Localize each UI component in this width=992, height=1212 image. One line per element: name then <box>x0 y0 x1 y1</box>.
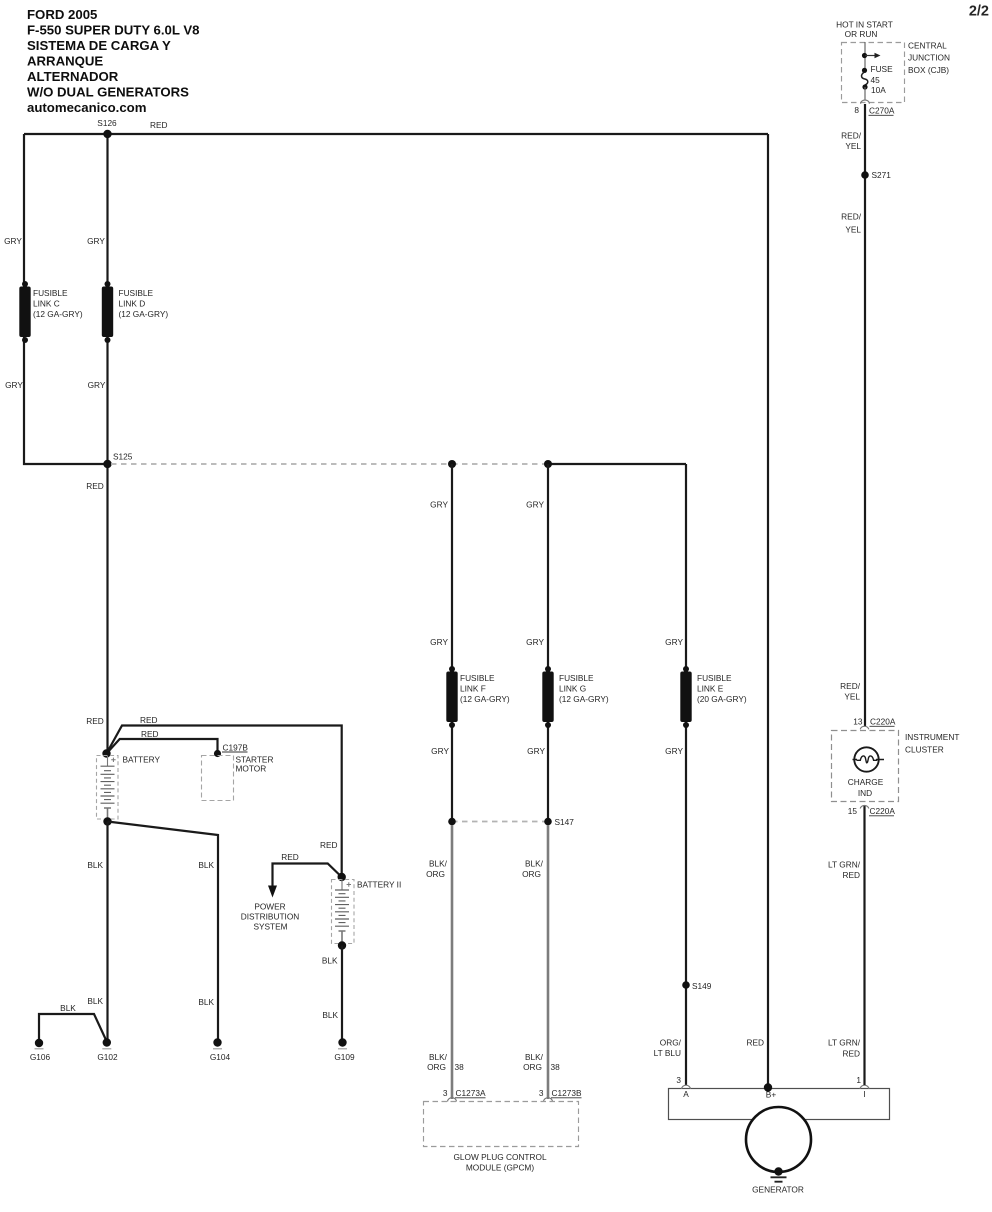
svg-text:BLK: BLK <box>322 1010 338 1020</box>
svg-text:S126: S126 <box>97 118 117 128</box>
ground G106 <box>30 1039 51 1062</box>
svg-text:38: 38 <box>455 1062 465 1072</box>
svg-text:BLK: BLK <box>87 860 103 870</box>
svg-text:W/O DUAL GENERATORS: W/O DUAL GENERATORS <box>27 85 189 100</box>
fusible link E <box>680 666 747 728</box>
svg-text:YEL: YEL <box>844 692 860 702</box>
svg-text:B+: B+ <box>766 1090 777 1100</box>
svg-text:G102: G102 <box>97 1052 118 1062</box>
svg-text:FUSIBLE: FUSIBLE <box>460 673 495 683</box>
svg-text:GRY: GRY <box>88 380 106 390</box>
svg-text:SYSTEM: SYSTEM <box>253 922 287 932</box>
svg-text:C1273B: C1273B <box>552 1088 582 1098</box>
svg-text:LINK E: LINK E <box>697 684 724 694</box>
svg-text:BOX (CJB): BOX (CJB) <box>908 65 949 75</box>
svg-text:BLK/: BLK/ <box>429 859 448 869</box>
wire BLK battery- to G102 <box>106 822 108 1043</box>
generator terminal I pin 1 <box>856 1075 869 1099</box>
node S126 <box>97 118 117 138</box>
ground G102 <box>97 1038 118 1062</box>
svg-text:45: 45 <box>871 75 881 85</box>
svg-text:YEL: YEL <box>845 141 861 151</box>
svg-text:S149: S149 <box>692 981 712 991</box>
wire GRY link E branch <box>685 464 687 1085</box>
wire BLK battery II to G109 <box>341 946 343 1043</box>
svg-text:RED: RED <box>86 481 104 491</box>
wire solid bus G junction to link E elbow <box>548 463 686 465</box>
svg-text:38: 38 <box>551 1062 561 1072</box>
svg-text:GRY: GRY <box>430 637 448 647</box>
wire GRY link F branch <box>451 464 453 821</box>
svg-text:F-550 SUPER DUTY 6.0L V8: F-550 SUPER DUTY 6.0L V8 <box>27 23 199 38</box>
svg-text:RED: RED <box>842 870 860 880</box>
svg-text:ORG: ORG <box>426 869 445 879</box>
wire RED right drop to generator B+ <box>767 134 769 1087</box>
svg-text:(12 GA-GRY): (12 GA-GRY) <box>559 694 609 704</box>
generator GENERATOR circle <box>746 1107 811 1195</box>
svg-text:DISTRIBUTION: DISTRIBUTION <box>241 912 300 922</box>
svg-text:JUNCTION: JUNCTION <box>908 53 950 63</box>
svg-text:LINK D: LINK D <box>119 299 146 309</box>
svg-text:INSTRUMENT: INSTRUMENT <box>905 732 959 742</box>
label RED/YEL upper <box>841 131 862 152</box>
ground G104 <box>210 1038 231 1062</box>
label RED/YEL lower <box>840 681 861 702</box>
svg-text:GRY: GRY <box>665 637 683 647</box>
svg-text:RED/: RED/ <box>841 212 862 222</box>
svg-text:IND: IND <box>858 788 872 798</box>
node S271 <box>861 170 891 180</box>
svg-text:S125: S125 <box>113 452 133 462</box>
node S125 <box>103 452 132 469</box>
svg-text:ORG: ORG <box>522 869 541 879</box>
svg-text:LT GRN/: LT GRN/ <box>828 860 861 870</box>
svg-text:G106: G106 <box>30 1052 51 1062</box>
svg-text:C1273A: C1273A <box>456 1088 486 1098</box>
fusible link D <box>102 281 169 343</box>
battery II BATTERY II symbol <box>332 879 402 944</box>
svg-text:SISTEMA DE CARGA Y: SISTEMA DE CARGA Y <box>27 38 171 53</box>
wire BLK battery- to G104 <box>108 822 219 1043</box>
svg-text:RED/: RED/ <box>840 681 861 691</box>
svg-text:RED: RED <box>281 852 299 862</box>
svg-text:C220A: C220A <box>870 806 896 816</box>
central junction box CJB dashed box <box>842 41 950 103</box>
generator box <box>669 1089 890 1120</box>
svg-text:C197B: C197B <box>223 743 249 753</box>
svg-text:G109: G109 <box>334 1052 355 1062</box>
svg-text:(12 GA-GRY): (12 GA-GRY) <box>119 309 169 319</box>
svg-text:(20 GA-GRY): (20 GA-GRY) <box>697 694 747 704</box>
svg-text:(12 GA-GRY): (12 GA-GRY) <box>33 309 83 319</box>
ground G109 <box>334 1038 355 1062</box>
node S149 <box>682 981 712 991</box>
svg-text:ARRANQUE: ARRANQUE <box>27 54 103 69</box>
svg-text:RED: RED <box>746 1038 764 1048</box>
svg-text:S147: S147 <box>555 817 575 827</box>
svg-text:FORD 2005: FORD 2005 <box>27 7 97 22</box>
CJB internal feed wire <box>864 42 866 69</box>
wire GRY left branch through fusible link C <box>24 134 108 464</box>
svg-text:FUSE: FUSE <box>871 64 894 74</box>
battery positive node <box>102 749 110 757</box>
label BLK/ORG wire B lower with pin 38 <box>523 1052 560 1072</box>
svg-text:ORG/: ORG/ <box>660 1038 682 1048</box>
CJB hot feed tap dot and arrow <box>862 53 881 58</box>
CJB internal wire to connector <box>864 87 866 100</box>
junction at link G wire <box>544 460 552 468</box>
svg-text:MODULE (GPCM): MODULE (GPCM) <box>466 1163 534 1173</box>
svg-text:(12 GA-GRY): (12 GA-GRY) <box>460 694 510 704</box>
connector C1273B pin 3 <box>539 1088 582 1102</box>
svg-text:3: 3 <box>539 1088 544 1098</box>
svg-text:LT BLU: LT BLU <box>654 1048 681 1058</box>
svg-text:OR RUN: OR RUN <box>845 29 878 39</box>
svg-text:RED: RED <box>140 715 158 725</box>
svg-text:LINK C: LINK C <box>33 299 60 309</box>
svg-text:BLK: BLK <box>198 860 214 870</box>
svg-text:ORG: ORG <box>523 1062 542 1072</box>
svg-text:15: 15 <box>848 806 858 816</box>
node S147 dashed tie <box>452 821 548 823</box>
svg-text:ALTERNADOR: ALTERNADOR <box>27 69 119 84</box>
svg-text:GRY: GRY <box>665 746 683 756</box>
label HOT IN START OR RUN <box>836 20 893 40</box>
fusible link F <box>446 666 510 728</box>
connector C270A pin 8 <box>854 100 894 116</box>
svg-text:RED: RED <box>842 1049 860 1059</box>
svg-text:GRY: GRY <box>5 380 23 390</box>
svg-text:CENTRAL: CENTRAL <box>908 41 947 51</box>
charge indicator lamp CHARGE IND <box>848 747 884 798</box>
svg-text:FUSIBLE: FUSIBLE <box>697 673 732 683</box>
junction S147 left dot <box>448 818 456 826</box>
battery BATTERY symbol <box>97 755 161 822</box>
svg-text:LT GRN/: LT GRN/ <box>828 1038 861 1048</box>
svg-text:BLK: BLK <box>198 997 214 1007</box>
svg-text:3: 3 <box>676 1075 681 1085</box>
svg-text:GRY: GRY <box>526 500 544 510</box>
svg-text:RED/: RED/ <box>841 131 862 141</box>
svg-text:GLOW PLUG CONTROL: GLOW PLUG CONTROL <box>453 1152 547 1162</box>
svg-text:2/2: 2/2 <box>969 4 989 20</box>
generator terminal A pin 3 <box>676 1075 690 1099</box>
battery II negative node <box>338 941 346 949</box>
junction at link F wire <box>448 460 456 468</box>
svg-text:BATTERY: BATTERY <box>123 755 161 765</box>
svg-text:automecanico.com: automecanico.com <box>27 100 146 115</box>
wire GRY/RED main left drop S126 to battery <box>106 134 108 753</box>
svg-text:RED: RED <box>320 840 338 850</box>
svg-text:RED: RED <box>150 120 168 130</box>
svg-text:FUSIBLE: FUSIBLE <box>559 673 594 683</box>
svg-text:ORG: ORG <box>427 1062 446 1072</box>
junction S147 right dot <box>544 817 574 827</box>
fuse F45 10A <box>862 64 894 95</box>
svg-text:GRY: GRY <box>431 746 449 756</box>
power distribution system arrow from battery II feed <box>241 852 342 932</box>
svg-text:GRY: GRY <box>87 236 105 246</box>
wire GRY link G branch <box>547 464 549 821</box>
svg-text:POWER: POWER <box>254 902 285 912</box>
svg-text:HOT IN START: HOT IN START <box>836 20 893 30</box>
svg-text:GENERATOR: GENERATOR <box>752 1185 804 1195</box>
svg-text:FUSIBLE: FUSIBLE <box>119 288 154 298</box>
wire RED battery+ to battery II (upper run) <box>107 726 342 878</box>
svg-text:BLK: BLK <box>322 956 338 966</box>
svg-text:3: 3 <box>443 1088 448 1098</box>
label BLK/ORG wire A lower with pin 38 <box>427 1052 464 1072</box>
dashed bus S125 to fusible link F wire <box>111 463 452 465</box>
label ORG/LT BLU generator A wire <box>654 1038 682 1059</box>
battery II positive node <box>338 873 346 881</box>
svg-text:BLK: BLK <box>60 1003 76 1013</box>
svg-text:13: 13 <box>853 717 863 727</box>
svg-text:CHARGE: CHARGE <box>848 777 884 787</box>
svg-text:GRY: GRY <box>527 746 545 756</box>
svg-text:YEL: YEL <box>845 225 861 235</box>
label LT GRN/RED generator I wire <box>828 1038 861 1059</box>
wire RED/YEL C270A to cluster <box>864 104 866 727</box>
svg-text:I: I <box>863 1089 865 1099</box>
svg-text:LINK G: LINK G <box>559 684 586 694</box>
svg-text:GRY: GRY <box>430 500 448 510</box>
svg-text:10A: 10A <box>871 85 886 95</box>
svg-text:BLK/: BLK/ <box>525 859 544 869</box>
svg-text:GRY: GRY <box>4 236 22 246</box>
svg-text:BLK/: BLK/ <box>525 1052 544 1062</box>
svg-text:G104: G104 <box>210 1052 231 1062</box>
battery negative node <box>103 817 111 825</box>
wire BLK/ORG to C1273A (gray) <box>451 825 454 1099</box>
dashed bus between F and G junctions <box>452 463 548 465</box>
generator terminal B+ <box>764 1083 777 1099</box>
fusible link C <box>19 281 83 343</box>
svg-text:GRY: GRY <box>526 637 544 647</box>
wire LT GRN/RED cluster to generator I <box>863 806 865 1085</box>
svg-text:A: A <box>683 1089 689 1099</box>
svg-text:LINK F: LINK F <box>460 684 486 694</box>
node C197B <box>214 743 248 758</box>
title block <box>27 7 199 115</box>
connector C1273A pin 3 <box>443 1088 486 1102</box>
svg-text:RED: RED <box>141 729 159 739</box>
label RED/YEL mid <box>841 212 862 235</box>
svg-text:C220A: C220A <box>870 717 896 727</box>
svg-text:FUSIBLE: FUSIBLE <box>33 288 68 298</box>
svg-text:S271: S271 <box>872 170 892 180</box>
svg-text:C270A: C270A <box>869 106 895 116</box>
wire RED top bus S126 to right drop <box>24 133 768 135</box>
fusible link G <box>542 666 609 728</box>
wire RED battery+ to starter motor C197B <box>107 739 218 754</box>
connector C220A pin 13 <box>853 717 896 730</box>
svg-text:8: 8 <box>854 105 859 115</box>
wire BLK G106 branch <box>39 1014 107 1042</box>
svg-text:BATTERY II: BATTERY II <box>357 880 401 890</box>
glow plug control module GPCM dashed box <box>424 1102 579 1173</box>
svg-text:BLK: BLK <box>87 996 103 1006</box>
svg-text:1: 1 <box>856 1075 861 1085</box>
label BLK/ORG wire A upper <box>426 859 448 880</box>
svg-text:MOTOR: MOTOR <box>236 764 267 774</box>
wire BLK/ORG to C1273B (gray) <box>547 825 550 1099</box>
label LT GRN/RED upper <box>828 860 861 881</box>
label BLK/ORG wire B upper <box>522 859 544 880</box>
svg-text:CLUSTER: CLUSTER <box>905 745 944 755</box>
instrument cluster dashed box <box>832 731 960 802</box>
svg-text:BLK/: BLK/ <box>429 1052 448 1062</box>
starter motor dashed box <box>202 755 274 801</box>
connector C220A pin 15 <box>848 806 896 816</box>
svg-text:RED: RED <box>86 716 104 726</box>
